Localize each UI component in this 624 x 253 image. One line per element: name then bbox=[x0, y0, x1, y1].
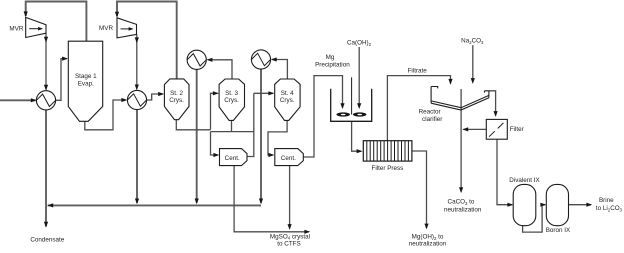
wire E2 condensate drop bbox=[135, 110, 139, 205]
wire vapor St.2 Crys top to MVR2 bbox=[115, 2, 177, 79]
svg-text:St. 4: St. 4 bbox=[281, 90, 294, 97]
vessel Divalent IX bbox=[513, 184, 536, 225]
vessel St.2 Crys bbox=[164, 79, 189, 120]
svg-text:Condensate: Condensate bbox=[30, 237, 64, 244]
svg-text:Brine: Brine bbox=[599, 197, 614, 204]
vessel Boron IX bbox=[546, 184, 568, 225]
svg-text:to Li2CO3: to Li2CO3 bbox=[596, 205, 623, 212]
label MgSO4 crystal to CTFS bbox=[270, 233, 310, 247]
vessel St.3 Crys bbox=[219, 79, 244, 120]
svg-text:Reactor: Reactor bbox=[419, 109, 441, 116]
label Cent 2 bbox=[281, 155, 296, 162]
wire riser to St.3 feed bbox=[211, 91, 219, 130]
svg-text:Filter Press: Filter Press bbox=[371, 165, 403, 172]
wire St.2 bottoms bbox=[176, 120, 210, 130]
label MVR compressor 2 bbox=[99, 25, 113, 32]
wire vapor Stage 1 Evap top to MVR1 bbox=[24, 2, 87, 42]
svg-text:clarifier: clarifier bbox=[422, 116, 442, 123]
wire MVR1 discharge to E1 top bbox=[44, 33, 48, 90]
svg-text:MVR: MVR bbox=[9, 26, 23, 33]
tank Mg precipitation bbox=[331, 89, 372, 122]
label CaCO3 to neutralization bbox=[444, 198, 482, 213]
wire E1 condensate drop bbox=[45, 110, 47, 205]
svg-text:Filter: Filter bbox=[510, 126, 524, 133]
vessel Stage 1 Evap bbox=[68, 41, 102, 121]
svg-text:Crys.: Crys. bbox=[169, 97, 184, 104]
wire E1 outlet to Stage 1 Evap feed bbox=[56, 57, 68, 101]
label Boron IX bbox=[546, 227, 571, 234]
impeller left bbox=[336, 112, 350, 116]
svg-text:St. 2: St. 2 bbox=[170, 90, 183, 97]
wire St.4 vapor to E4 bbox=[271, 57, 288, 79]
label St.2 Crys bbox=[169, 90, 184, 104]
svg-text:Ca(OH)2: Ca(OH)2 bbox=[347, 40, 372, 47]
impeller right bbox=[353, 112, 367, 116]
svg-text:MVR: MVR bbox=[99, 25, 113, 32]
compressor MVR2 bbox=[117, 18, 137, 38]
svg-text:Mg: Mg bbox=[326, 54, 335, 61]
label MVR compressor 1 bbox=[9, 26, 23, 33]
wire E2 outlet to St.2 feed bbox=[147, 92, 164, 100]
label Divalent IX bbox=[509, 177, 540, 184]
label Brine to Li2CO3 bbox=[596, 197, 623, 213]
wire feed inlet to heat exchanger E1 bbox=[0, 98, 37, 102]
label Condensate bbox=[30, 237, 64, 244]
wire filter return to clarifier shaft bbox=[462, 127, 486, 131]
label Stage 1 Evap bbox=[75, 73, 97, 87]
svg-text:Na2CO3: Na2CO3 bbox=[461, 38, 484, 45]
svg-text:Crys.: Crys. bbox=[224, 97, 239, 104]
wire C2 centrate to Mg precipitation tank bbox=[303, 76, 344, 157]
wire E3 condensate drop bbox=[195, 69, 199, 204]
svg-text:St. 3: St. 3 bbox=[225, 90, 238, 97]
svg-text:Precipitation: Precipitation bbox=[315, 61, 350, 68]
label Na2CO3 bbox=[461, 38, 484, 45]
vessel St.4 Crys bbox=[275, 79, 300, 120]
svg-text:neutralization: neutralization bbox=[409, 241, 447, 248]
label Mg(OH)2 to neutralization bbox=[409, 233, 447, 247]
svg-text:Mg(OH)2 to: Mg(OH)2 to bbox=[412, 233, 444, 240]
label Filter bbox=[510, 126, 524, 133]
wire St.4 bottoms to C2 feed bbox=[268, 120, 287, 157]
wire press solids to neutralization bbox=[412, 151, 429, 229]
svg-text:Filtrate: Filtrate bbox=[408, 68, 428, 75]
label Mg Precipitation bbox=[315, 54, 350, 68]
svg-text:Evap.: Evap. bbox=[78, 80, 94, 87]
wire filter to Divalent IX bbox=[497, 139, 513, 207]
compressor MVR1 bbox=[26, 17, 46, 37]
svg-text:Divalent IX: Divalent IX bbox=[509, 177, 540, 184]
wire clarifier overflow to filter bbox=[489, 91, 498, 117]
wire condensate header bbox=[47, 203, 261, 207]
reactor clarifier bbox=[431, 87, 489, 111]
label Cent 1 bbox=[225, 155, 240, 162]
label Ca(OH)2 bbox=[347, 40, 372, 47]
wire brine outlet bbox=[569, 203, 593, 207]
centrifuge C2 bbox=[275, 149, 304, 166]
centrifuge C1 bbox=[220, 149, 248, 166]
heat exchanger E3 bbox=[187, 50, 206, 69]
wire clarifier underflow CaCO3 bbox=[459, 89, 463, 193]
svg-text:Cent.: Cent. bbox=[281, 155, 296, 162]
wire C1 solids down bbox=[234, 166, 310, 234]
label Filter Press bbox=[371, 165, 403, 172]
svg-text:Crys.: Crys. bbox=[280, 97, 295, 104]
svg-text:Stage 1: Stage 1 bbox=[75, 73, 97, 80]
svg-text:to CTFS: to CTFS bbox=[277, 240, 300, 247]
filter unit bbox=[486, 119, 507, 139]
wire to centrifuge C1 feed bbox=[211, 132, 220, 158]
svg-text:Boron IX: Boron IX bbox=[546, 227, 571, 234]
wire tank outlet to filter press bbox=[352, 121, 363, 153]
heat exchanger E2 bbox=[127, 90, 146, 109]
svg-text:neutralization: neutralization bbox=[444, 207, 482, 214]
wire E4 condensate drop bbox=[259, 69, 263, 204]
wire filtrate to reactor clarifier bbox=[387, 76, 452, 141]
label St.4 Crys bbox=[280, 90, 295, 104]
label Reactor clarifier bbox=[419, 109, 443, 123]
wire Na2CO3 dosing bbox=[471, 45, 475, 84]
wire C2 solids down bbox=[288, 166, 292, 230]
wire St.3 vapor to E3 bbox=[207, 58, 232, 79]
filter press bbox=[363, 141, 412, 161]
label St.3 Crys bbox=[224, 90, 239, 104]
agitator shaft bbox=[351, 77, 353, 114]
svg-text:CaCO3 to: CaCO3 to bbox=[448, 198, 475, 205]
label Filtrate bbox=[408, 68, 428, 75]
heat exchanger E1 bbox=[36, 91, 55, 110]
svg-text:Cent.: Cent. bbox=[225, 155, 240, 162]
heat exchanger E4 bbox=[251, 50, 270, 69]
wire Divalent IX to Boron IX bbox=[523, 203, 547, 233]
wire condensate outfall bbox=[44, 205, 48, 227]
wire St.3 bottoms manifold bbox=[211, 120, 254, 131]
wire Ca(OH)2 dosing bbox=[357, 47, 361, 109]
wire MVR2 discharge to E2 top bbox=[135, 34, 139, 90]
wire Stage 1 bottoms to E2 bbox=[85, 98, 127, 130]
wire riser to St.4 feed bbox=[247, 91, 274, 156]
